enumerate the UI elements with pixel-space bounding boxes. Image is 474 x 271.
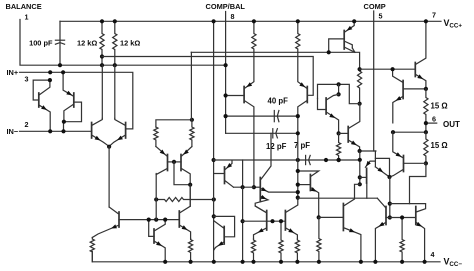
comp node wire to base bbox=[234, 186, 254, 188]
transistor Q18 diode PNP top bbox=[343, 31, 345, 50]
resistor Q16 emitter bbox=[295, 239, 299, 262]
wire bias to Q19 base loop bbox=[318, 84, 360, 103]
resistor Q7 emitter bbox=[189, 239, 193, 262]
transistor Q6 bias cascode bbox=[153, 229, 155, 243]
transistor Q24 comp PNP (QY) bbox=[366, 168, 368, 183]
pin 5 lead wire bbox=[373, 11, 375, 151]
transistor Q4 input NPN right bbox=[125, 123, 127, 139]
wire output mirror descender bbox=[389, 177, 391, 218]
svg-text:7: 7 bbox=[432, 11, 436, 20]
transistor Q28 bottom right NPN right bbox=[415, 207, 417, 225]
resistor second stage right bbox=[296, 21, 300, 52]
svg-text:4: 4 bbox=[431, 250, 435, 259]
transistor Q15 bottom NPN left bbox=[266, 211, 268, 231]
svg-text:5: 5 bbox=[379, 12, 383, 21]
wire Q20 collector node bbox=[338, 84, 340, 94]
transistor Q16 bottom NPN right bbox=[284, 211, 286, 231]
svg-text:6: 6 bbox=[432, 114, 436, 123]
wire Q17 to output sink base bbox=[319, 216, 344, 218]
resistor tail emitter bbox=[90, 238, 94, 262]
transistor Q17 comp driver bbox=[309, 175, 311, 191]
Q18 base tie bbox=[329, 39, 345, 52]
wire 15ohm bottom to output sink bbox=[410, 163, 426, 203]
transistor Q19 Vbe multiplier upper bbox=[325, 98, 327, 114]
transistor Q23 output PNP bbox=[403, 156, 405, 172]
transistor Q9 mirror PNP right bbox=[180, 155, 182, 171]
emitter wire Q20 to comp pin bbox=[360, 150, 376, 152]
svg-text:3: 3 bbox=[25, 75, 29, 84]
transistor Q27 bottom right NPN left bbox=[385, 207, 387, 225]
transistor Q26 output sink driver bbox=[342, 204, 344, 231]
transistor Q1 input clamp upper bbox=[38, 93, 40, 107]
resistor bottom-mid bbox=[279, 221, 283, 262]
transistor Q14 gain stage double-emitter bbox=[259, 178, 261, 202]
comp node riser bbox=[242, 160, 244, 187]
bottom mirror base wire bbox=[243, 220, 286, 222]
comp/bal node wire bbox=[102, 57, 313, 96]
transistor Q7 mirror-driver bbox=[178, 211, 180, 227]
svg-text:15 Ω: 15 Ω bbox=[431, 141, 448, 150]
wire 12k left to comp/bal line bbox=[101, 57, 103, 66]
resistor Vbe multiplier bbox=[337, 133, 341, 160]
wire right collector stack bbox=[114, 65, 116, 118]
transistor Q20 driver NPN bbox=[347, 127, 349, 143]
svg-text:12 kΩ: 12 kΩ bbox=[120, 39, 140, 48]
svg-text:COMP: COMP bbox=[364, 2, 386, 11]
VCC+ top rail bbox=[60, 20, 441, 22]
compensation wire bbox=[214, 159, 360, 161]
bus branch to QX base bbox=[214, 173, 225, 175]
pin 3 IN+ wire bbox=[20, 72, 133, 129]
svg-text:15 Ω: 15 Ω bbox=[431, 101, 448, 110]
transistor Q10 diode-connected bottom bbox=[223, 227, 225, 245]
svg-text:1: 1 bbox=[25, 13, 29, 22]
transistor Q12 second-stage PNP left bbox=[243, 87, 245, 103]
wire output base feed bbox=[360, 68, 416, 70]
pin 2 IN- wire bbox=[20, 130, 92, 132]
VCC- bottom rail bbox=[92, 252, 440, 262]
wire left collector stack bbox=[101, 65, 103, 118]
tail sink base wire bbox=[119, 219, 179, 221]
input pair tail node bbox=[107, 145, 111, 149]
transistor Q21 output NPN top bbox=[414, 63, 416, 77]
wire from second stage line down to mirror bbox=[190, 52, 192, 120]
svg-text:BALANCE: BALANCE bbox=[6, 2, 42, 11]
bus wire from top rail down bbox=[213, 21, 215, 261]
svg-text:8: 8 bbox=[231, 12, 235, 21]
svg-text:100 pF: 100 pF bbox=[29, 39, 53, 48]
mirror base tie bbox=[172, 160, 176, 164]
svg-text:12 kΩ: 12 kΩ bbox=[77, 39, 97, 48]
transistor Q3 input NPN left bbox=[91, 123, 93, 139]
svg-text:OUT: OUT bbox=[443, 120, 460, 129]
pin 8 lead wire bbox=[225, 12, 227, 134]
junction comp/bal on balance rail bbox=[224, 63, 228, 67]
svg-text:40 pF: 40 pF bbox=[268, 96, 289, 105]
cross wire to output bias bbox=[298, 197, 378, 199]
resistor Q17 emitter leg bbox=[317, 217, 321, 261]
bias mirror wire with resistor bbox=[156, 198, 214, 202]
resistor mirror left bbox=[154, 127, 158, 147]
wire comp bus vertical bbox=[359, 151, 361, 184]
output node wire bbox=[393, 131, 426, 133]
resistor output bias upper bbox=[358, 69, 362, 104]
svg-text:IN−: IN− bbox=[7, 127, 19, 136]
comp node dropper bbox=[242, 187, 244, 262]
mirror top wire bbox=[156, 120, 192, 127]
resistor second stage left bbox=[252, 21, 256, 52]
svg-text:2: 2 bbox=[25, 120, 29, 129]
resistor output sink bias bbox=[400, 218, 404, 262]
cross wire into left NPN collector bbox=[377, 198, 385, 207]
svg-text:12 pF: 12 pF bbox=[266, 142, 287, 151]
transistor Q25 bias PNP diode (QZ) bbox=[374, 151, 376, 167]
resistor Q15 emitter bbox=[251, 239, 255, 262]
transistor Q13 second-stage PNP right bbox=[306, 87, 308, 103]
transistor Q5 tail current sink bbox=[118, 212, 120, 227]
resistor mirror right bbox=[190, 120, 194, 147]
transistor Q2 input clamp lower bbox=[73, 93, 75, 107]
svg-text:COMP/BAL: COMP/BAL bbox=[206, 2, 246, 11]
transistor Q22 output NPN second bbox=[402, 81, 404, 99]
pin 1 lead wire bbox=[20, 20, 226, 66]
second stage feed wire bbox=[191, 52, 359, 69]
pin 6 stub bbox=[426, 122, 437, 124]
transistor Q11 cascode PNP (QX) bbox=[224, 167, 226, 184]
svg-text:IN+: IN+ bbox=[7, 68, 19, 77]
transistor Q8 mirror PNP left bbox=[167, 155, 169, 171]
svg-text:7 pF: 7 pF bbox=[294, 141, 310, 150]
bottom right base wire bbox=[386, 217, 416, 219]
